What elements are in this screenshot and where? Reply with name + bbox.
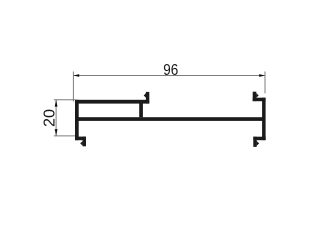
svg-text:96: 96 xyxy=(163,62,178,79)
svg-text:20: 20 xyxy=(42,109,59,127)
